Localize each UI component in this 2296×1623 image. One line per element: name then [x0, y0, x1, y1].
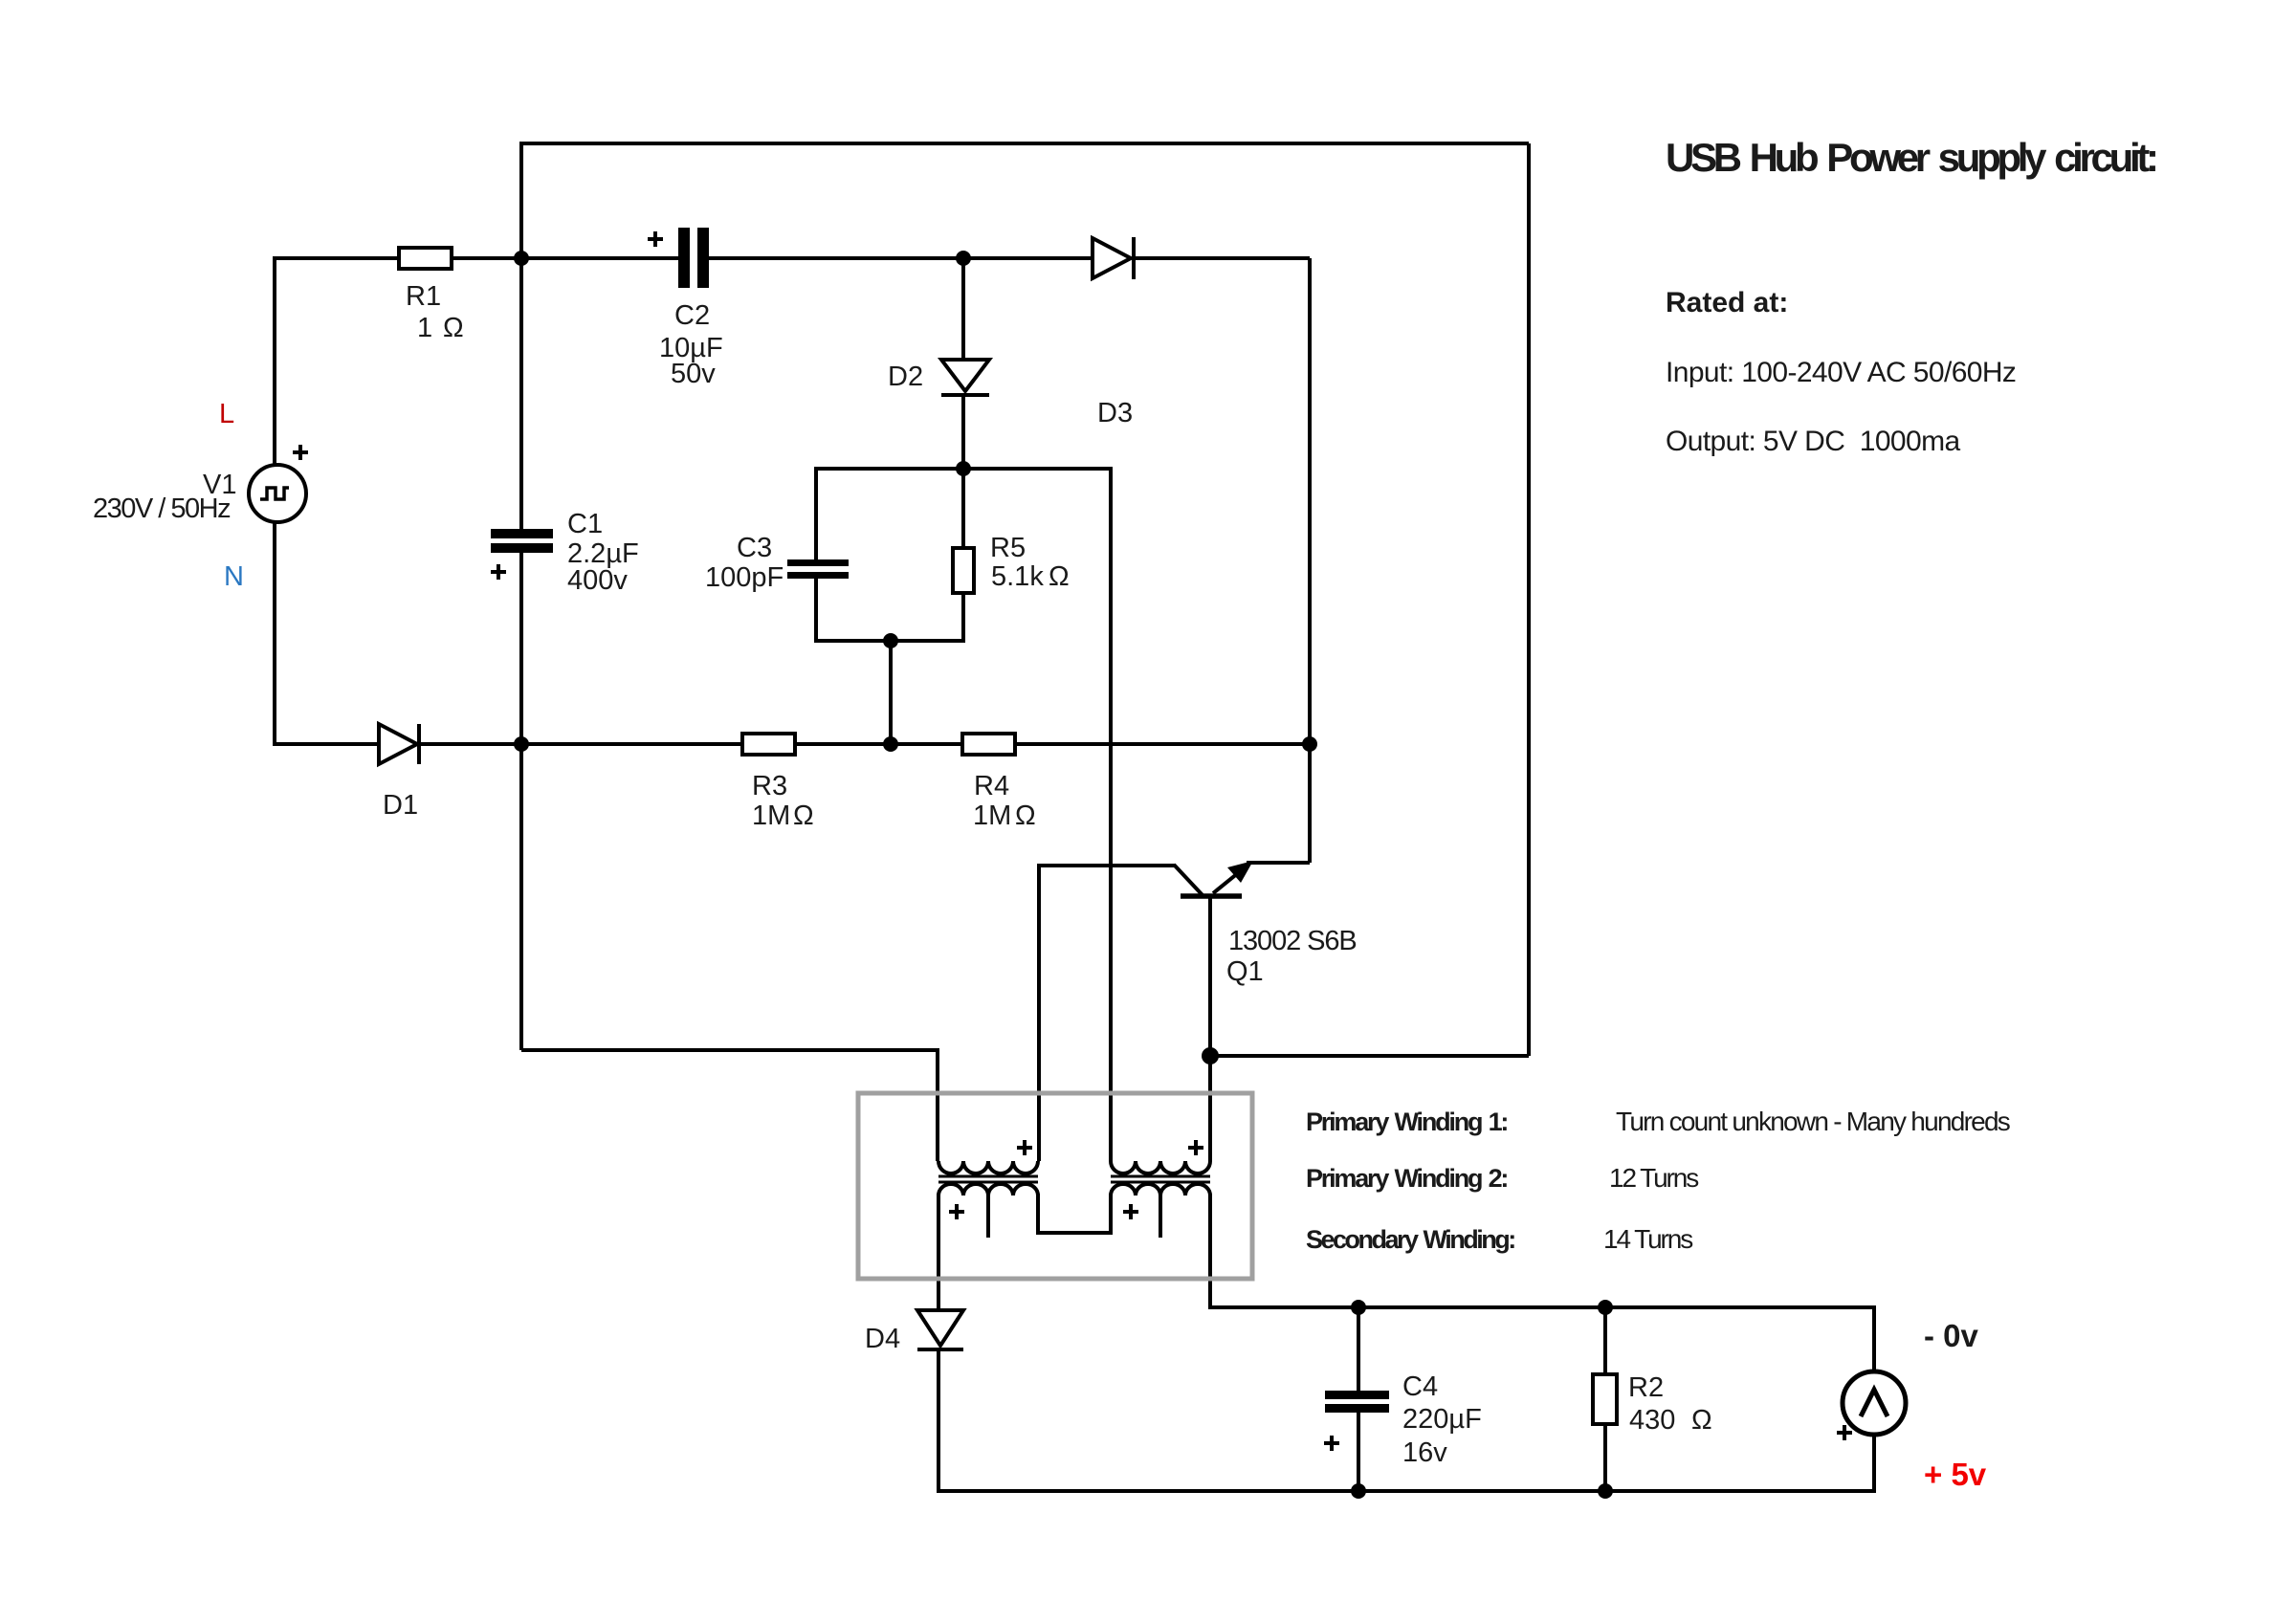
svg-text:5.1k: 5.1k — [991, 561, 1044, 592]
svg-text:1M: 1M — [973, 801, 1011, 831]
svg-text:D3: D3 — [1097, 398, 1133, 428]
svg-text:Input: 100-240V AC 50/60Hz: Input: 100-240V AC 50/60Hz — [1666, 357, 2016, 388]
svg-text:100pF: 100pF — [705, 562, 784, 593]
svg-text:Turn count unknown - Many hund: Turn count unknown - Many hundreds — [1616, 1107, 2010, 1136]
svg-text:13002 S6B: 13002 S6B — [1228, 926, 1357, 956]
svg-text:430: 430 — [1629, 1405, 1675, 1436]
svg-text:230V / 50Hz: 230V / 50Hz — [93, 493, 231, 524]
svg-text:- 0v: - 0v — [1924, 1318, 1979, 1353]
svg-text:400v: 400v — [567, 565, 628, 596]
svg-text:Primary Winding 2:: Primary Winding 2: — [1306, 1164, 1507, 1193]
svg-text:R4: R4 — [974, 771, 1009, 801]
svg-text:C1: C1 — [567, 509, 603, 539]
svg-text:L: L — [219, 399, 234, 429]
svg-text:Secondary Winding:: Secondary Winding: — [1306, 1225, 1514, 1254]
svg-text:220µF: 220µF — [1402, 1404, 1482, 1435]
svg-text:Q1: Q1 — [1226, 956, 1264, 987]
svg-text:N: N — [224, 561, 244, 592]
svg-text:Ω: Ω — [793, 801, 814, 831]
svg-text:C2: C2 — [674, 300, 710, 331]
svg-text:+ 5v: + 5v — [1924, 1457, 1987, 1492]
svg-text:16v: 16v — [1402, 1437, 1447, 1468]
svg-text:Primary Winding 1:: Primary Winding 1: — [1306, 1108, 1507, 1136]
svg-text:Output: 5V DC 1000ma: Output: 5V DC 1000ma — [1666, 426, 1960, 457]
svg-text:1: 1 — [417, 313, 432, 343]
svg-text:Ω: Ω — [1015, 801, 1036, 831]
svg-text:50v: 50v — [671, 359, 716, 389]
svg-text:Ω: Ω — [1049, 561, 1070, 592]
svg-text:1M: 1M — [752, 801, 790, 831]
svg-text:R5: R5 — [990, 533, 1026, 563]
svg-text:12 Turns: 12 Turns — [1609, 1163, 1698, 1193]
svg-text:USB Hub Power supply circuit:: USB Hub Power supply circuit: — [1666, 135, 2155, 180]
svg-text:Rated at:: Rated at: — [1666, 287, 1788, 318]
svg-text:C4: C4 — [1402, 1371, 1438, 1402]
svg-text:R2: R2 — [1628, 1372, 1664, 1403]
svg-text:R3: R3 — [752, 771, 787, 801]
svg-text:D4: D4 — [865, 1324, 900, 1354]
svg-text:Ω: Ω — [1691, 1405, 1712, 1436]
svg-text:D2: D2 — [888, 362, 923, 392]
svg-text:14 Turns: 14 Turns — [1603, 1224, 1692, 1254]
svg-text:Ω: Ω — [443, 313, 464, 343]
svg-text:R1: R1 — [406, 281, 441, 312]
svg-text:C3: C3 — [737, 533, 772, 563]
svg-text:D1: D1 — [383, 790, 418, 821]
